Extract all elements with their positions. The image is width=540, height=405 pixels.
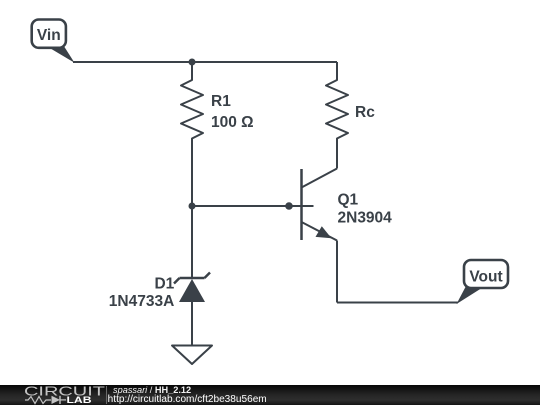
wire top rail Vin to Rc	[73, 61, 337, 63]
node Vout flag	[457, 260, 509, 304]
wire base node to Q1	[192, 205, 289, 207]
svg-text:R1: R1	[211, 93, 231, 110]
svg-text:CIRCUIT: CIRCUIT	[24, 385, 106, 399]
wire collector to Rc handled in diagonal; wire emitter down	[336, 241, 338, 303]
svg-text:2N3904: 2N3904	[338, 210, 393, 227]
junction dot at Q1 base pin	[285, 202, 293, 210]
wire R1 bottom to node	[191, 150, 193, 206]
footer bar	[0, 385, 540, 405]
svg-text:1N4733A: 1N4733A	[109, 293, 175, 310]
svg-text:Q1: Q1	[338, 192, 359, 209]
CircuitLab logo	[24, 385, 106, 405]
svg-text:Vout: Vout	[469, 269, 502, 286]
node Vin flag	[32, 20, 75, 63]
svg-text:100 Ω: 100 Ω	[211, 114, 254, 131]
wire node to D1	[191, 206, 193, 278]
junction dot at Vin rail / R1	[189, 59, 196, 66]
svg-text:Rc: Rc	[355, 104, 375, 121]
wire D1 to ground	[191, 302, 193, 345]
wire emitter to Vout	[337, 302, 458, 304]
footer divider	[106, 386, 108, 404]
ground	[172, 346, 212, 365]
svg-text:http://circuitlab.com/cft2be38: http://circuitlab.com/cft2be38u56em	[108, 394, 267, 405]
transistor Q1	[289, 169, 392, 241]
svg-text:D1: D1	[154, 276, 174, 293]
diode D1 zener 1N4733A	[109, 273, 210, 311]
junction dot at base node	[189, 203, 196, 210]
svg-text:LAB: LAB	[67, 395, 92, 405]
resistor Rc	[326, 62, 375, 169]
resistor R1	[181, 62, 254, 150]
svg-text:Vin: Vin	[37, 27, 61, 44]
